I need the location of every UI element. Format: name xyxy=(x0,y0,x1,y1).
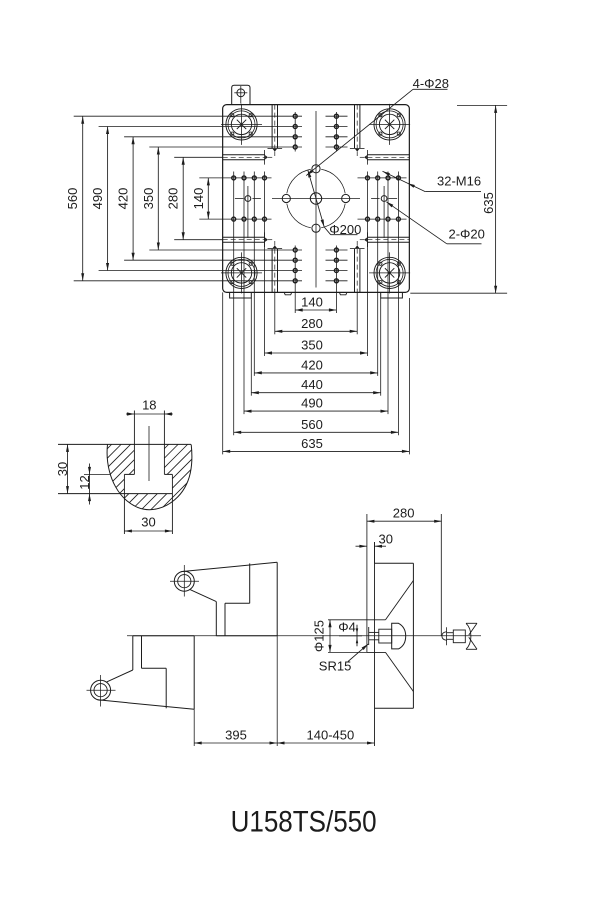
T-slot top-right (plan) xyxy=(350,105,365,156)
svg-text:SR15: SR15 xyxy=(319,658,352,673)
dimension 395 xyxy=(194,728,277,745)
t-slot detail outer profile xyxy=(107,444,192,509)
tie-bar boss top-left xyxy=(221,104,262,145)
dimension 490 chain xyxy=(244,396,388,413)
hole row centerlines mid (140 rows) xyxy=(199,178,406,219)
svg-text:490: 490 xyxy=(301,396,323,411)
tie-bar boss top-right xyxy=(369,104,410,145)
svg-text:2-Φ20: 2-Φ20 xyxy=(449,227,485,242)
dimension 440 chain xyxy=(251,377,380,394)
svg-text:280: 280 xyxy=(166,188,181,210)
dimension phi125 xyxy=(312,620,368,653)
hole column centerlines (140 cols) xyxy=(295,112,336,313)
dimension 420 chain xyxy=(254,357,377,374)
moving platen bottom inner step xyxy=(142,636,167,709)
sprue bush body xyxy=(379,629,392,643)
center locating hole xyxy=(310,193,321,204)
locating ring front face xyxy=(366,514,368,652)
dimension 560 chain xyxy=(234,417,399,434)
T-slot right-lower (plan) xyxy=(360,232,410,247)
svg-text:30: 30 xyxy=(141,515,155,530)
sprue bush bar xyxy=(368,627,370,645)
dimension 18 xyxy=(126,398,173,416)
svg-text:280: 280 xyxy=(393,506,415,521)
nozzle head xyxy=(392,623,406,649)
extension lines 280 chain xyxy=(275,292,357,334)
dimension 30 bottom xyxy=(124,515,172,533)
bottom locating pad right xyxy=(339,292,347,294)
dimension 635 right xyxy=(410,105,507,293)
dimension 30 side xyxy=(356,531,393,563)
moving platen top outline xyxy=(181,562,277,636)
label phi200 xyxy=(308,170,362,237)
sprue funnel diagonals xyxy=(386,581,414,692)
dimension 490 left xyxy=(90,127,109,271)
locating hole edges xyxy=(367,620,386,653)
side view main centerline xyxy=(127,635,481,637)
t-slot detail cavity bottom line xyxy=(58,493,172,495)
dimension 140 chain xyxy=(295,295,336,312)
title U158TS/550 xyxy=(231,806,377,839)
T-slot bottom-left (plan) xyxy=(268,241,283,292)
dimension 420 left xyxy=(116,137,135,260)
toggle lug bottom circle xyxy=(87,675,116,707)
platen vertical centerline xyxy=(315,111,317,288)
dimension phi4 xyxy=(338,619,362,646)
eyebolt lug tab xyxy=(232,85,250,104)
moving platen face extension bottom xyxy=(193,709,195,746)
svg-text:635: 635 xyxy=(481,192,496,214)
bottom locating pad left xyxy=(284,292,292,294)
svg-text:350: 350 xyxy=(301,338,323,353)
moving platen bottom outline xyxy=(98,636,195,710)
right foot pad xyxy=(381,292,403,298)
t-slot mouth walls + 18 extensions xyxy=(134,411,164,475)
svg-text:350: 350 xyxy=(141,188,156,210)
dimension 280 chain xyxy=(275,316,357,333)
moving platen face extension top xyxy=(276,636,278,746)
phi200 bolt circle xyxy=(287,169,345,227)
nozzle seat bracket xyxy=(466,623,477,649)
nozzle tip dome xyxy=(442,627,453,645)
t-slot detail centerline xyxy=(148,426,150,481)
svg-text:4-Φ28: 4-Φ28 xyxy=(413,76,449,91)
t-slot step horizontals xyxy=(124,473,172,475)
label 2-phi20 xyxy=(386,202,485,244)
extension lines 635 chain (platen edges) xyxy=(223,292,410,454)
t-slot detail hatching xyxy=(46,444,254,510)
dimension 12 xyxy=(77,464,92,505)
dimension 350 chain xyxy=(265,338,368,355)
svg-text:280: 280 xyxy=(301,316,323,331)
svg-text:140: 140 xyxy=(301,295,323,310)
svg-text:560: 560 xyxy=(301,417,323,432)
svg-text:440: 440 xyxy=(301,377,323,392)
svg-text:635: 635 xyxy=(301,436,323,451)
fixed platen body xyxy=(375,542,414,746)
4-phi28 holes xyxy=(282,165,350,233)
platen outline (635x635 plate) xyxy=(223,105,410,293)
dimension 350 left xyxy=(141,147,160,250)
hole row centerlines with left extensions xyxy=(74,116,348,281)
T-slot top-left (plan) xyxy=(268,105,283,156)
svg-text:30: 30 xyxy=(55,462,70,476)
t-slot detail step extension xyxy=(84,473,110,475)
nozzle cylinder xyxy=(453,630,465,643)
svg-text:140-450: 140-450 xyxy=(307,728,355,743)
extension lines 280 left xyxy=(174,157,223,239)
dimension 280 left xyxy=(166,157,185,239)
svg-text:30: 30 xyxy=(378,531,392,546)
svg-text:140: 140 xyxy=(191,188,206,210)
svg-text:490: 490 xyxy=(90,188,105,210)
sprue bush pilot lines xyxy=(369,632,379,639)
dimension 140-450 xyxy=(277,728,375,745)
toggle lug top circle xyxy=(170,565,199,597)
platen horizontal centerline xyxy=(272,198,360,200)
svg-text:U158TS/550: U158TS/550 xyxy=(231,806,377,839)
dimension 30 left xyxy=(55,444,70,493)
label 32-M16 xyxy=(383,171,482,191)
T-slot left-upper (plan) xyxy=(223,150,273,165)
dimension 560 left xyxy=(65,116,84,281)
t-slot detail top surface line xyxy=(58,443,191,445)
T-slot right-upper (plan) xyxy=(360,150,410,165)
dimension 635 chain xyxy=(223,436,410,453)
moving platen edges on centerline xyxy=(133,635,277,637)
32-M16 tapped holes xyxy=(232,114,401,283)
2-phi20 holes xyxy=(235,186,397,238)
svg-text:Φ4: Φ4 xyxy=(338,619,356,634)
svg-text:395: 395 xyxy=(225,728,247,743)
svg-text:12: 12 xyxy=(77,475,92,489)
label SR15 xyxy=(319,644,369,673)
left foot pad xyxy=(230,292,252,298)
dimension 140 left xyxy=(191,178,210,219)
tie-bar boss bottom-left xyxy=(221,252,262,293)
svg-text:Φ125: Φ125 xyxy=(312,620,327,652)
label 4-phi28 xyxy=(306,76,449,176)
extension lines 440 chain (feet) xyxy=(251,298,380,396)
svg-text:420: 420 xyxy=(116,188,131,210)
svg-text:560: 560 xyxy=(65,188,80,210)
T-slot bottom-right (plan) xyxy=(350,241,365,292)
svg-text:Φ200: Φ200 xyxy=(329,222,361,237)
280 extension right / nozzle line xyxy=(440,514,442,636)
dimension 280 side xyxy=(367,506,442,523)
tie-bar boss bottom-right xyxy=(369,252,410,293)
svg-text:420: 420 xyxy=(301,357,323,372)
svg-text:18: 18 xyxy=(142,398,156,413)
T-slot left-lower (plan) xyxy=(223,232,273,247)
hole column centerlines with extensions to chain xyxy=(234,172,399,436)
t-slot cavity walls + 30 extensions xyxy=(124,474,172,534)
moving platen top inner step xyxy=(225,563,250,635)
svg-text:32-M16: 32-M16 xyxy=(437,173,481,188)
